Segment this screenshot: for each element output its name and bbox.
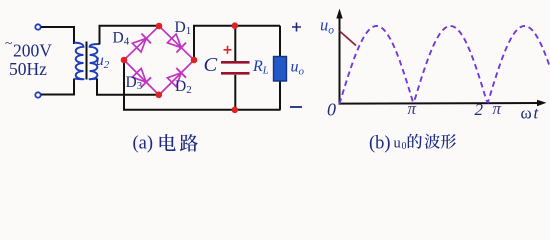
svg-text:~: ~ [5,36,12,51]
label + of capacitor [224,46,232,54]
wire secondary bottom to bridge AC node [97,79,159,95]
wire DC minus: left vertex down to bottom rail [124,60,281,110]
capacitor C branch wire bottom [234,75,236,110]
capacitor C branch wire top [234,26,236,61]
capacitor C plates [221,61,250,64]
junction left DC- vertex [121,57,128,64]
label + output [292,23,301,32]
svg-text:0: 0 [327,99,336,119]
caption char de [408,134,422,149]
pointer line from uo label to curve [340,31,357,46]
terminal input top [35,24,40,29]
resistor RL branch wire bottom [279,81,281,110]
svg-text:u: u [394,136,401,152]
resistor RL body [274,57,287,82]
svg-text:(b): (b) [369,133,391,153]
diode D4 [132,38,146,52]
label - output [290,106,302,108]
transformer T1 primary winding [74,43,84,80]
svg-text:π: π [493,99,502,118]
junction right DC+ vertex [191,57,198,64]
wire primary bottom [41,79,74,95]
waveform x-axis [339,102,540,105]
transformer T1 core [86,42,88,80]
svg-text:50Hz: 50Hz [9,59,47,79]
diode D2 [167,73,181,87]
caption char xing [441,134,456,149]
resistor RL branch wire top [279,26,281,57]
caption char bo [425,134,440,149]
junction top AC vertex [156,23,163,30]
svg-text:ω: ω [521,103,532,122]
svg-text:π: π [408,99,417,118]
diode D3 [132,68,146,82]
waveform curve uo dashed [340,26,550,104]
svg-text:0: 0 [402,141,407,152]
wire secondary top to bridge AC node [100,26,160,45]
transformer T1 secondary winding [90,44,100,79]
caption char lu [180,134,198,152]
junction C top [232,22,239,29]
diode D1 [167,34,181,48]
waveform y-axis [339,16,341,105]
junction bottom AC vertex [156,92,163,99]
svg-text:C: C [204,54,218,76]
wire primary top [41,27,74,44]
svg-text:2: 2 [475,100,484,119]
svg-text:200V: 200V [13,41,52,61]
svg-text:(a): (a) [133,133,154,153]
bridge diamond wires [124,26,194,95]
junction C bottom [232,107,239,114]
caption char dian [160,134,176,151]
wire DC plus: right vertex up to top rail [194,26,280,60]
terminal input bottom [35,92,40,97]
